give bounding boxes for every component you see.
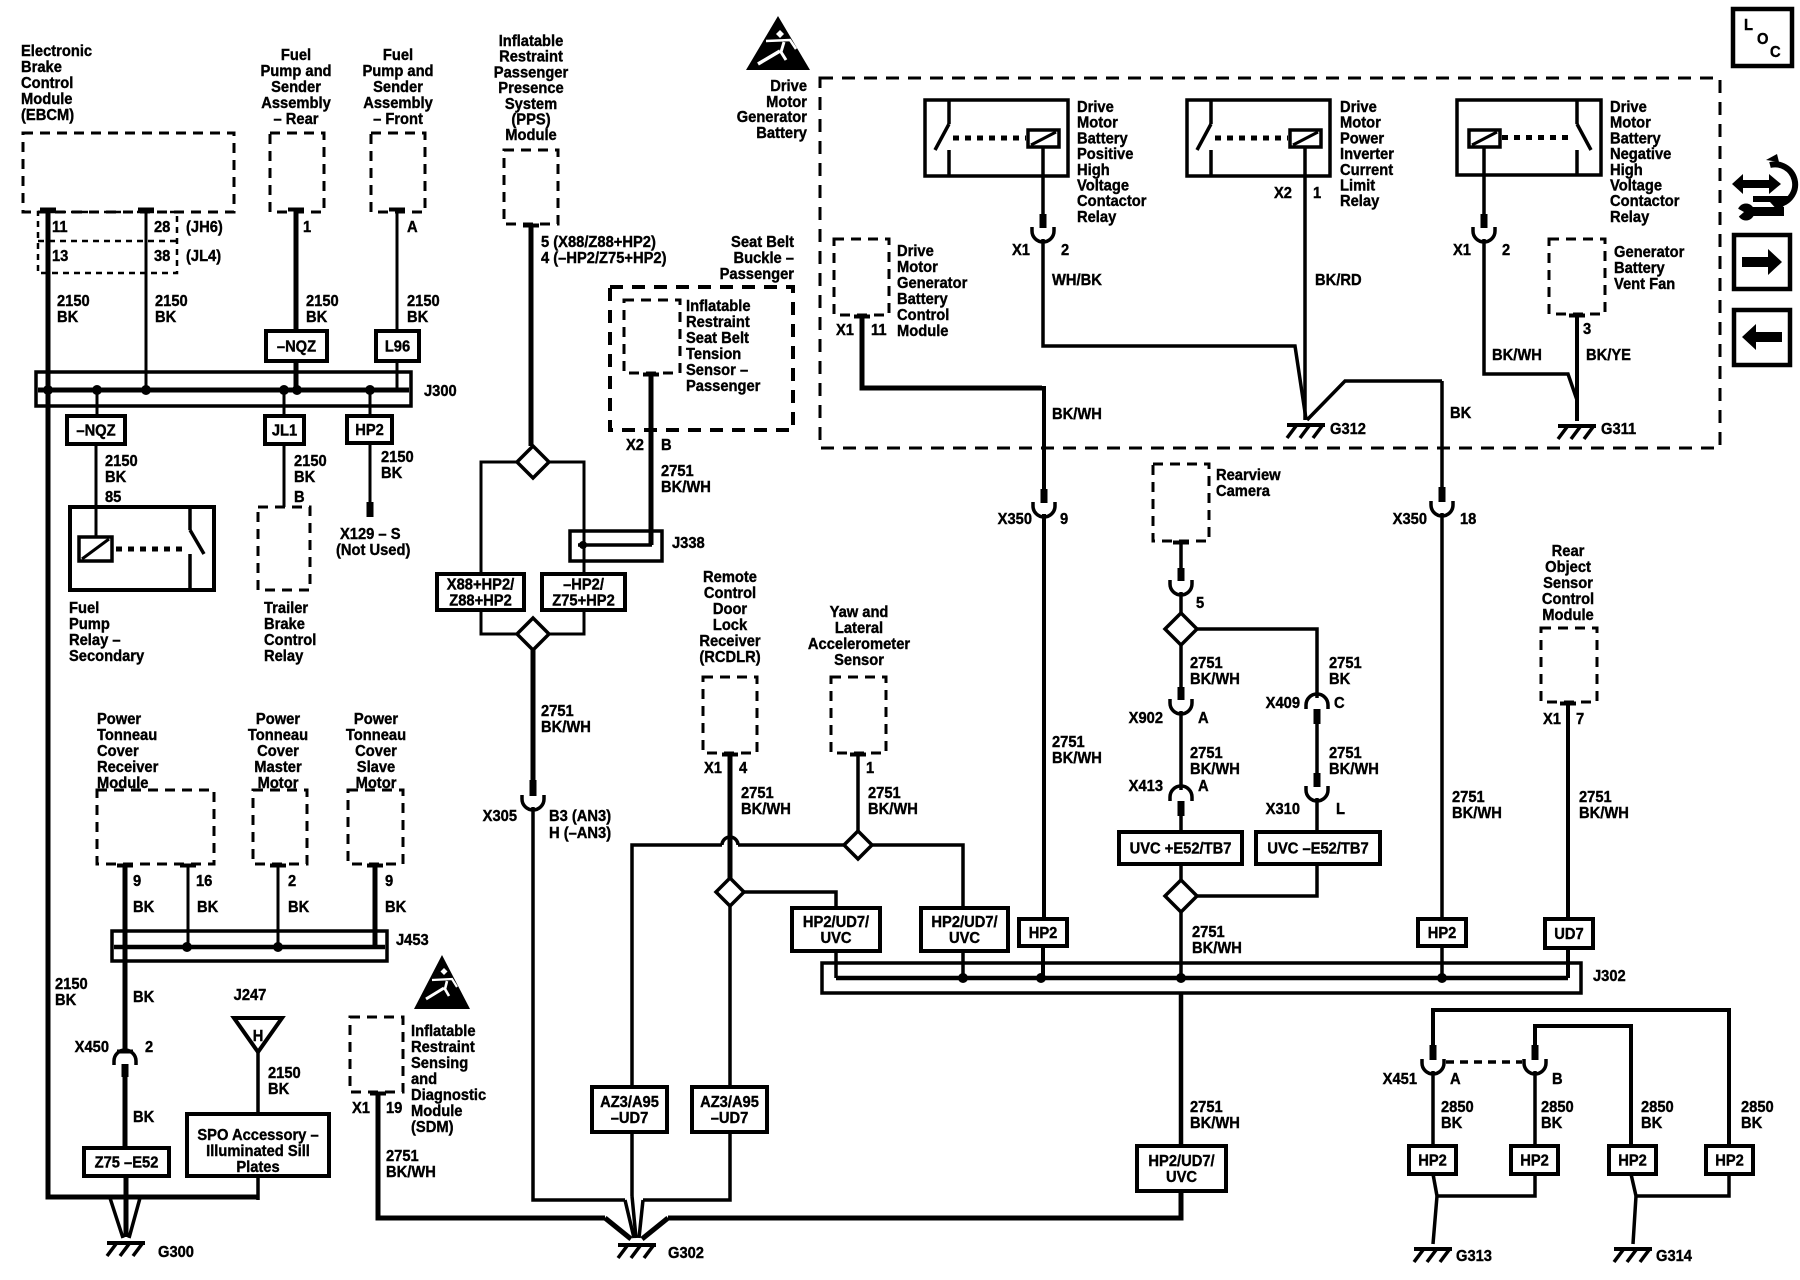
svg-text:BK/WH: BK/WH (1190, 760, 1240, 778)
svg-text:BK: BK (306, 308, 327, 326)
svg-text:19: 19 (386, 1099, 402, 1117)
relay: Fuel Pump Relay - Secondary (70, 507, 214, 590)
svg-text:(Not Used): (Not Used) (336, 541, 410, 559)
svg-text:HP2: HP2 (1520, 1152, 1549, 1170)
splice diamond upper (PPS branch) (517, 446, 549, 478)
fuse block label HP2 #3 (1609, 1146, 1656, 1174)
wire 2751 BK/WH to X310 (1315, 724, 1319, 774)
connector X350 pin 18 (1439, 487, 1446, 502)
svg-text:1: 1 (1313, 184, 1322, 202)
svg-text:BK/WH: BK/WH (1190, 670, 1240, 688)
svg-text:X1: X1 (704, 759, 722, 777)
wire AZ3 left to G302 (630, 1132, 634, 1196)
fuse block label UVC -E52/TB7 (1256, 832, 1380, 864)
svg-text:Plates: Plates (236, 1158, 279, 1176)
fuse block label HP2 #2 (1511, 1146, 1558, 1174)
fuse block label -HP2/Z75+HP2 (542, 574, 625, 610)
wire RCDLR X1 pin 4 (2751 BK/WH) (722, 753, 738, 757)
wire diamond left with crossover hop to AZ3 branch (738, 843, 844, 847)
wire L96 to J300 (396, 361, 399, 390)
svg-text:BK: BK (385, 898, 406, 916)
svg-text:X413: X413 (1129, 777, 1163, 795)
svg-text:HP2: HP2 (1428, 924, 1457, 942)
svg-text:13: 13 (52, 247, 68, 265)
connector X310 pin L (1314, 773, 1321, 787)
svg-text:WH/BK: WH/BK (1052, 271, 1102, 289)
wire J300 to JL1 (283, 390, 286, 416)
wire WH/BK relay to G312 (1043, 239, 1306, 419)
boundary box Drive Motor Generator Battery (820, 78, 1720, 448)
junction dots on J302 (958, 973, 968, 983)
svg-text:1: 1 (303, 218, 312, 236)
svg-text:A: A (1450, 1070, 1461, 1088)
wire diamond right branch 2751 BK to X409 (1197, 629, 1317, 698)
wire X350-9 (2751 BK/WH) to HP2 and J302 (1042, 514, 1046, 920)
svg-text:–UD7: –UD7 (611, 1109, 649, 1127)
svg-text:BK/YE: BK/YE (1586, 346, 1631, 364)
svg-text:G312: G312 (1330, 420, 1366, 438)
svg-text:4 (–HP2/Z75+HP2): 4 (–HP2/Z75+HP2) (541, 249, 666, 267)
svg-text:J453: J453 (396, 931, 429, 949)
svg-text:BK/WH: BK/WH (1190, 1114, 1240, 1132)
fuse block label HP2 (camera circuit) (1019, 919, 1067, 946)
connector X902 pin A (1178, 687, 1185, 700)
svg-text:1: 1 (866, 759, 875, 777)
wire front fuel pump pin A (2150 BK) (389, 208, 405, 212)
module Drive Motor Generator Battery Control Module (834, 239, 889, 315)
splice pack J302 (822, 963, 1581, 993)
svg-text:BK: BK (55, 991, 76, 1009)
wire EBCM pin 11 (2150 BK) long run to G300 (40, 208, 56, 212)
fuse block label AZ3/A95-UD7 (right) (692, 1087, 767, 1132)
svg-text:BK: BK (1329, 670, 1350, 688)
svg-text:85: 85 (105, 488, 122, 506)
wire J300 to -NQZ (lower) (96, 390, 99, 416)
junction dots on J453 (182, 942, 192, 952)
svg-text:UVC: UVC (949, 929, 980, 947)
svg-text:A: A (1198, 709, 1209, 727)
svg-text:BK/WH: BK/WH (868, 800, 918, 818)
svg-text:BK/WH: BK/WH (541, 718, 591, 736)
connector X305 pin B3/H (530, 780, 537, 796)
wire HP2 #3 to G314 (1631, 1174, 1636, 1196)
svg-text:Z75 –E52: Z75 –E52 (95, 1154, 159, 1172)
fuse block label AZ3/A95-UD7 (left) (592, 1087, 667, 1132)
svg-text:16: 16 (196, 872, 212, 890)
module SPO Accessory - Illuminated Sill Plates (187, 1114, 329, 1176)
svg-text:Z75+HP2: Z75+HP2 (552, 592, 615, 610)
svg-text:BK: BK (268, 1080, 289, 1098)
svg-text:Passenger: Passenger (720, 265, 794, 283)
svg-text:Relay: Relay (1340, 193, 1380, 211)
wire relay X2 pin 1 (BK/RD) to G312 (1303, 147, 1307, 420)
svg-text:J338: J338 (672, 534, 705, 552)
svg-text:HP2: HP2 (1029, 924, 1058, 942)
svg-text:G314: G314 (1656, 1247, 1692, 1265)
svg-text:HP2: HP2 (1418, 1152, 1447, 1170)
svg-text:BK: BK (155, 308, 176, 326)
wire master motor pin 2 (BK) (270, 864, 286, 868)
wire J300 to HP2 (369, 390, 372, 416)
svg-text:X1: X1 (352, 1099, 370, 1117)
wire EBCM pin 28 (2150 BK) to J300 (138, 208, 154, 212)
svg-text:4: 4 (739, 759, 748, 777)
fuse block label UD7 (1545, 919, 1593, 948)
svg-text:Relay: Relay (1610, 208, 1650, 226)
svg-text:28: 28 (154, 218, 171, 236)
svg-text:BK/WH: BK/WH (1192, 939, 1242, 957)
wire feed to X451 B and HP2 #3 (1535, 1026, 1631, 1146)
svg-text:A: A (1198, 777, 1209, 795)
svg-text:L: L (1336, 800, 1345, 818)
svg-text:BK/WH: BK/WH (741, 800, 791, 818)
svg-text:UVC: UVC (1166, 1168, 1197, 1186)
svg-text:L: L (1744, 16, 1753, 34)
svg-text:(JL4): (JL4) (186, 247, 221, 265)
svg-text:HP2: HP2 (1618, 1152, 1647, 1170)
svg-text:BK/WH: BK/WH (1052, 749, 1102, 767)
fuse block label HP2 #1 (1409, 1146, 1456, 1174)
fuse block label HP2 #4 (1706, 1146, 1753, 1174)
wire 2751 BK/WH to X902 (1179, 645, 1183, 688)
svg-text:Secondary: Secondary (69, 647, 145, 665)
svg-text:X2: X2 (1274, 184, 1292, 202)
svg-text:Battery: Battery (756, 124, 807, 142)
svg-text:X1: X1 (1012, 241, 1030, 259)
wire HP2 to X129 terminal (2150 BK, not used) (369, 443, 372, 502)
svg-text:BK: BK (1441, 1114, 1462, 1132)
relay: Drive Motor Battery Positive High Voltage Contactor Relay (925, 100, 1068, 176)
wire ground run into G300 (48, 1195, 258, 1197)
svg-text:– Rear: – Rear (274, 110, 319, 128)
svg-text:BK/WH: BK/WH (1452, 804, 1502, 822)
connector X409 pin C (1306, 694, 1328, 709)
splice pack J453 (112, 931, 387, 961)
svg-text:2: 2 (288, 872, 296, 890)
wire rear fuel pump pin 1 (2150 BK) (288, 208, 304, 212)
splice diamond UVC rejoin (1179, 864, 1183, 880)
svg-text:X310: X310 (1266, 800, 1300, 818)
svg-text:Module: Module (1542, 606, 1594, 624)
svg-text:UVC +E52/TB7: UVC +E52/TB7 (1130, 840, 1232, 858)
svg-text:BK: BK (1450, 404, 1471, 422)
svg-text:Module: Module (897, 322, 949, 340)
wire camera pin 5 to splice diamond (1173, 541, 1189, 545)
svg-text:BK/WH: BK/WH (1579, 804, 1629, 822)
wire HP2 #1 to G313 (1433, 1174, 1437, 1196)
connector X451 pin A (1430, 1045, 1437, 1060)
fuse block label L96 (376, 331, 419, 361)
fuse block label -NQZ (lower) (67, 416, 125, 444)
module Inflatable Restraint Sensing and Diagnostic Module (SDM) (350, 1017, 403, 1092)
svg-text:BK: BK (288, 898, 309, 916)
svg-text:X350: X350 (998, 510, 1032, 528)
ground G300 (107, 1241, 145, 1245)
wire slave motor pin 9 (BK) (367, 864, 383, 868)
svg-text:B: B (661, 436, 672, 454)
svg-text:UD7: UD7 (1554, 925, 1583, 943)
wire X451 B (2850 BK) to HP2 (1533, 1071, 1537, 1146)
EBCM pin table (pins 11/28 JH6, 13/38 JL4) (38, 212, 177, 273)
svg-text:3: 3 (1583, 320, 1591, 338)
svg-text:B3 (AN3): B3 (AN3) (549, 807, 611, 825)
wire BK/WH relay to G311 (1484, 239, 1577, 420)
wire X350-18 (2751 BK/WH) to HP2 and J302 (1440, 513, 1444, 920)
svg-text:BK: BK (197, 898, 218, 916)
relay: Drive Motor Power Inverter Current Limit Relay (1187, 100, 1330, 176)
splice diamond RCDLR (716, 878, 744, 906)
svg-text:7: 7 (1576, 710, 1584, 728)
icon arrow left box (1734, 310, 1790, 365)
junction dots on J300 (43, 385, 53, 395)
fuse block label JL1 (265, 416, 304, 444)
icon LOC box (1733, 9, 1792, 66)
svg-text:J300: J300 (424, 382, 457, 400)
wire main ground run diagonals into G302 (605, 1218, 631, 1239)
svg-text:Module: Module (505, 127, 557, 145)
wire -NQZ to J300 (294, 361, 299, 390)
svg-text:9: 9 (385, 872, 393, 890)
ground G302 (618, 1243, 656, 1247)
svg-text:G311: G311 (1601, 420, 1637, 438)
wire BK from G312 to X350 pin 18 (1307, 381, 1442, 420)
svg-text:X450: X450 (75, 1038, 109, 1056)
svg-text:J302: J302 (1593, 967, 1626, 985)
wire vent fan pin 3 (BK/YE) to G311 (1569, 314, 1585, 318)
wire X450 to Z75-E52 (BK) (123, 1077, 128, 1148)
connector X451 pin B (1532, 1045, 1539, 1060)
icon service tools (1732, 174, 1781, 194)
svg-text:G313: G313 (1456, 1247, 1492, 1265)
wire SPO to G300 run (256, 1176, 260, 1200)
wire X305 to G302 run (533, 807, 625, 1200)
svg-text:BK: BK (133, 1108, 154, 1126)
wire AZ3 right to G302 (643, 1132, 730, 1200)
svg-text:O: O (1757, 30, 1768, 48)
svg-text:X2: X2 (626, 436, 644, 454)
splice diamond camera ground (1165, 613, 1197, 645)
connector X413 pin A (1170, 786, 1192, 801)
svg-text:X902: X902 (1129, 709, 1163, 727)
ground G313 (1414, 1247, 1452, 1251)
svg-text:BK/WH: BK/WH (386, 1163, 436, 1181)
wire diamond to X88+HP2 branch (481, 462, 517, 574)
connector X450 pin 2 (117, 1050, 133, 1054)
wire X451 A (2850 BK) to HP2 (1431, 1071, 1435, 1146)
svg-text:Sensor: Sensor (834, 651, 884, 669)
svg-text:18: 18 (1460, 510, 1477, 528)
wire receiver pin 9 (BK) through J453 to X450 (117, 864, 133, 868)
wire RCDLR diamond to first HP2/UD7/UVC (744, 892, 836, 908)
svg-text:BK: BK (294, 468, 315, 486)
wire J302 to HP2/UD7/UVC (ground feed) (1179, 993, 1184, 1146)
svg-text:BK: BK (133, 988, 154, 1006)
svg-text:L96: L96 (385, 338, 410, 356)
svg-text:H: H (253, 1027, 264, 1045)
svg-text:BK: BK (1541, 1114, 1562, 1132)
wire 2751 BK/WH to X413 (1179, 711, 1183, 790)
warning triangle - Drive Motor Generator Battery (746, 16, 810, 70)
svg-text:BK: BK (57, 308, 78, 326)
svg-text:2: 2 (145, 1038, 153, 1056)
wire 2751 BK/WH diamond to J302 (1179, 912, 1183, 978)
svg-text:HP2: HP2 (355, 421, 384, 439)
svg-text:BK/WH: BK/WH (1492, 346, 1542, 364)
fuse block label UVC +E52/TB7 (1119, 832, 1242, 864)
svg-text:Relay: Relay (264, 647, 304, 665)
svg-text:JL1: JL1 (272, 422, 298, 440)
wire 2751 BK/WH down to X305 (531, 649, 536, 780)
wire rear object X1 pin 7 (2751 BK/WH) (1560, 702, 1576, 706)
wire relay output to X1 pin 2 connector (1482, 147, 1486, 214)
svg-text:–UD7: –UD7 (711, 1109, 749, 1127)
splice diamond yaw sensor (844, 831, 872, 859)
svg-text:X305: X305 (483, 807, 518, 825)
svg-text:–NQZ: –NQZ (277, 338, 316, 356)
svg-text:G302: G302 (668, 1244, 704, 1262)
connector X350 pin 9 (1041, 489, 1048, 503)
svg-text:X1: X1 (1543, 710, 1561, 728)
svg-text:BK/WH: BK/WH (1329, 760, 1379, 778)
fuse block label HP2 (X129) (347, 416, 392, 443)
wire JL1 to trailer brake relay pin B (2150 BK) (283, 444, 286, 507)
wire diamond to -HP2 branch through J338 (549, 462, 584, 574)
svg-text:BK: BK (133, 898, 154, 916)
svg-text:Z88+HP2: Z88+HP2 (449, 592, 512, 610)
module Generator Battery Vent Fan (1549, 239, 1605, 314)
svg-text:HP2: HP2 (1715, 1152, 1744, 1170)
svg-text:BK/WH: BK/WH (661, 478, 711, 496)
svg-text:H (–AN3): H (–AN3) (549, 824, 611, 842)
svg-text:38: 38 (154, 247, 171, 265)
svg-text:– Front: – Front (373, 110, 423, 128)
fuse block label Z75 -E52 (84, 1148, 169, 1176)
wire J453 to X450 (BK) (123, 947, 128, 1050)
relay: Drive Motor Battery Negative High Voltage Contactor Relay (1457, 100, 1601, 175)
svg-text:C: C (1770, 43, 1781, 61)
svg-text:X1: X1 (1453, 241, 1471, 259)
wire receiver pin 16 (BK) to J453 (180, 864, 196, 868)
svg-text:5: 5 (1196, 594, 1205, 612)
wire -NQZ to fuel pump relay pin 85 (2150 BK) (95, 444, 98, 537)
svg-text:G300: G300 (158, 1243, 194, 1261)
svg-text:C: C (1334, 694, 1345, 712)
svg-text:B: B (1552, 1070, 1563, 1088)
svg-text:BK: BK (1641, 1114, 1662, 1132)
dashed link X451 A-B (1446, 1060, 1522, 1064)
svg-text:2: 2 (1502, 241, 1510, 259)
ground G311 (1558, 424, 1596, 428)
svg-text:(EBCM): (EBCM) (21, 106, 74, 124)
wire diamond right to HP2/UD7/UVC (872, 845, 963, 908)
svg-text:9: 9 (133, 872, 141, 890)
svg-text:BK/WH: BK/WH (1052, 405, 1102, 423)
svg-text:B: B (294, 488, 305, 506)
svg-text:BK: BK (381, 464, 402, 482)
svg-text:J247: J247 (234, 986, 267, 1004)
wire yaw sensor pin 1 (2751 BK/WH) (850, 753, 866, 757)
wire HP2 #4 to G314 (1636, 1174, 1729, 1196)
svg-text:UVC: UVC (820, 929, 851, 947)
fuse block label -NQZ (upper) (266, 331, 327, 361)
fuse block label HP2/UD7/UVC (left) (792, 908, 880, 951)
svg-text:X1: X1 (836, 321, 854, 339)
wire HP2 #2 to G313 (1437, 1174, 1535, 1196)
svg-text:BK: BK (407, 308, 428, 326)
svg-text:(JH6): (JH6) (186, 218, 223, 236)
svg-text:A: A (407, 218, 418, 236)
svg-text:BK: BK (1741, 1114, 1762, 1132)
warning triangle - SDM (414, 955, 470, 1009)
svg-text:(SDM): (SDM) (411, 1118, 453, 1136)
svg-text:X451: X451 (1383, 1070, 1418, 1088)
svg-text:Camera: Camera (1216, 482, 1270, 500)
svg-text:9: 9 (1060, 510, 1068, 528)
fuse block label HP2/UD7/UVC (right) (921, 908, 1008, 951)
wire to G302 run (668, 1191, 1181, 1218)
svg-text:2: 2 (1061, 241, 1069, 259)
wire sensor X2 pin B (2751 BK/WH) to J338 (643, 373, 659, 377)
svg-text:Relay: Relay (1077, 208, 1117, 226)
svg-text:Passenger: Passenger (686, 377, 760, 395)
svg-text:BK: BK (105, 468, 126, 486)
module Trailer Brake Control Relay (258, 507, 310, 590)
icon arrow right box (1734, 235, 1790, 289)
wire SDM X1 pin 19 (2751 BK/WH) to G302 (370, 1092, 386, 1096)
module Rearview Camera (1153, 464, 1209, 541)
fuse block label HP2 (rear object circuit) (1418, 919, 1466, 946)
svg-text:UVC –E52/TB7: UVC –E52/TB7 (1267, 840, 1368, 858)
module Inflatable Restraint Seat Belt Tension Sensor - Passenger (624, 300, 680, 373)
wire BCM X1 pin 11 (BK/WH) to X350 pin 9 (854, 315, 870, 319)
svg-text:Vent Fan: Vent Fan (1614, 275, 1675, 293)
wire feed to X451 A and HP2 #4 (1433, 1010, 1729, 1146)
wire RCDLR down to AZ3 box (728, 906, 732, 1087)
ground G312 (1287, 423, 1325, 427)
ground G314 (1614, 1247, 1652, 1251)
svg-text:11: 11 (871, 321, 887, 339)
fuse block label X88+HP2/Z88+HP2 (437, 574, 524, 610)
svg-text:BK/RD: BK/RD (1315, 271, 1362, 289)
wire relay output to X1 pin 2 connector (1041, 147, 1045, 214)
svg-text:X409: X409 (1266, 694, 1300, 712)
svg-text:11: 11 (52, 218, 68, 236)
wire Z75-E52 to G300 (124, 1176, 129, 1237)
svg-text:X350: X350 (1393, 510, 1427, 528)
wire J247 (2150 BK) to SPO accessory (256, 1049, 260, 1114)
fuse block label HP2/UD7/UVC (bottom) (1137, 1146, 1226, 1191)
splice diamond lower (PPS branch rejoin) (481, 610, 518, 634)
svg-text:(RCDLR): (RCDLR) (699, 648, 760, 666)
wire PPS pins 5/4 down to splice diamond (523, 224, 539, 228)
svg-text:–NQZ: –NQZ (76, 422, 115, 440)
splice pack J300 (36, 372, 411, 406)
splice pack J338 (570, 531, 662, 561)
